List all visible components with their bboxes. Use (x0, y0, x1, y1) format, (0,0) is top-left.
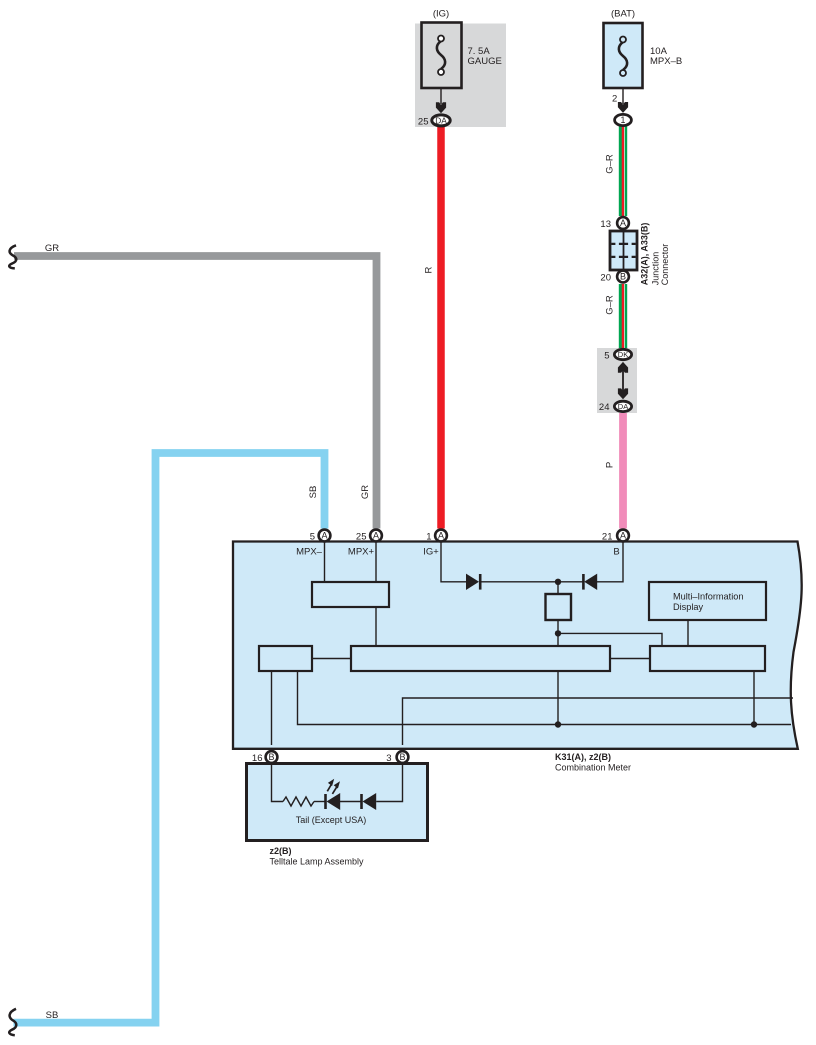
wire rectA bottom to long rect (375, 607, 377, 646)
wire pin3 up and right bus y698 (403, 698, 794, 745)
junction connector pin 13 A (600, 217, 628, 230)
label Junction Connector rotated (651, 244, 671, 286)
svg-text:B: B (613, 547, 619, 558)
svg-text:IG+: IG+ (423, 547, 439, 558)
wire left rect to bus y724 (298, 671, 792, 725)
wire diode to pin 3 (376, 764, 402, 802)
meter long rect (351, 646, 610, 671)
label SB rotated near pin 5 (308, 486, 319, 499)
oval 24 DA (599, 401, 632, 413)
junction connector pin 20 B (600, 271, 628, 284)
svg-text:5: 5 (310, 531, 315, 542)
svg-text:Display: Display (673, 602, 704, 612)
svg-text:Connector: Connector (660, 244, 670, 286)
svg-text:A: A (438, 531, 444, 541)
svg-text:GR: GR (45, 243, 59, 254)
oval 5 DK (604, 349, 631, 361)
wire from dot right to right-rect top (558, 633, 662, 646)
svg-text:(IG): (IG) (433, 9, 449, 20)
svg-text:Junction: Junction (651, 252, 661, 286)
diode D2 (B side, pointing left) (558, 574, 597, 590)
pin name MPX+ (348, 547, 375, 558)
svg-text:25: 25 (418, 117, 429, 128)
meter internal wire: pin21 B down and left to diode (597, 542, 623, 582)
svg-text:2: 2 (612, 94, 617, 105)
junction dot bus right (751, 721, 757, 727)
svg-text:B: B (620, 272, 626, 282)
svg-text:Telltale Lamp Assembly: Telltale Lamp Assembly (270, 857, 365, 867)
svg-text:A32(A), A33(B): A32(A), A33(B) (640, 223, 650, 286)
gray background block behind IG fuse (415, 24, 506, 128)
svg-text:Tail (Except USA): Tail (Except USA) (296, 815, 367, 825)
combination meter body K31(A) z2(B) (233, 542, 802, 749)
label G-R rotated upper (605, 154, 616, 174)
wire long rect to right rect (610, 658, 650, 660)
svg-text:1: 1 (426, 531, 431, 542)
svg-text:B: B (399, 752, 405, 762)
diode D1 (IG+ side, pointing right) (466, 574, 558, 590)
meter internal wire: pin1 IG+ down and right to diode (441, 542, 466, 582)
svg-text:A: A (620, 218, 626, 228)
pin name IG+ (423, 547, 439, 558)
label Tail (Except USA) (296, 815, 367, 825)
svg-text:SB: SB (46, 1010, 59, 1021)
fuse 10A MPX-B (BAT) (604, 9, 683, 113)
svg-text:A: A (373, 531, 379, 541)
junction dot below square (555, 630, 561, 636)
wire right rect bottom down (753, 671, 755, 725)
small square component (546, 582, 572, 646)
wire G-R lower: junction B to DK (619, 284, 628, 349)
svg-text:24: 24 (599, 402, 610, 413)
svg-text:MPX–B: MPX–B (650, 56, 682, 67)
svg-text:25: 25 (356, 531, 367, 542)
diode D3 in telltale (pointing left) (362, 793, 377, 810)
meter top pin 21 A (602, 530, 629, 543)
svg-text:K31(A), z2(B): K31(A), z2(B) (555, 752, 611, 762)
connector oval 1 (615, 114, 632, 125)
wire long rect bottom down (557, 671, 559, 725)
wire left rect to long rect (312, 658, 351, 660)
label P rotated (605, 462, 616, 468)
label GR left (45, 243, 59, 254)
svg-text:Combination Meter: Combination Meter (555, 763, 631, 773)
svg-text:21: 21 (602, 531, 613, 542)
wire R red: from fuse DA to pin 1 (437, 126, 445, 529)
meter bottom pin 3 B (386, 751, 408, 764)
svg-text:DK: DK (618, 350, 628, 359)
gray connector block DK/DA (597, 348, 637, 413)
svg-text:Multi–Information: Multi–Information (673, 591, 743, 601)
svg-text:1: 1 (621, 115, 626, 125)
junction connector box A32(A) A33(B) (610, 231, 637, 270)
break squiggle SB bottom left (9, 1009, 16, 1035)
svg-text:A: A (620, 531, 626, 541)
svg-text:13: 13 (600, 219, 611, 230)
wire GR gray: from left edge to pin 25 (14, 256, 377, 529)
meter top pin 5 A (310, 530, 331, 543)
meter internal wire: pin25 to rectA (375, 542, 377, 582)
meter top pin 25 A (356, 530, 382, 543)
wire SB skyblue: from left edge bottom up to pin 5 (14, 453, 325, 1023)
junction dot bus (555, 721, 561, 727)
resistor in telltale (283, 797, 314, 806)
label z2(B) Telltale Lamp Assembly (270, 846, 365, 867)
svg-text:SB: SB (308, 486, 319, 499)
label R rotated (424, 266, 435, 273)
svg-text:GR: GR (360, 485, 371, 499)
label A32(A), A33(B) rotated (640, 223, 650, 286)
meter top pin 1 A (426, 530, 447, 543)
svg-text:GAUGE: GAUGE (468, 56, 502, 67)
meter right rect (650, 646, 765, 671)
connector oval 25 DA (418, 115, 450, 128)
svg-text:B: B (268, 752, 274, 762)
LED (tail lamp) (326, 779, 341, 810)
svg-text:G–R: G–R (605, 154, 616, 174)
svg-text:G–R: G–R (605, 295, 616, 315)
meter rect A (under MPX pins) (312, 582, 389, 607)
meter bottom pin 16 B (252, 751, 277, 764)
fuse 7.5A GAUGE (IG) (422, 9, 502, 114)
svg-text:P: P (605, 462, 616, 468)
wire left rect to pin 16 (271, 671, 273, 745)
meter left small rect (259, 646, 312, 671)
svg-text:A: A (321, 531, 327, 541)
label GR rotated near pin 25 (360, 485, 371, 499)
wire LED to diode (340, 801, 361, 803)
pin name B (613, 547, 619, 558)
svg-text:5: 5 (604, 350, 609, 361)
break squiggle GR left edge (9, 245, 16, 268)
svg-text:MPX–: MPX– (296, 547, 323, 558)
meter internal wire: pin5 to rectA (324, 542, 326, 582)
label SB bottom (46, 1010, 59, 1021)
svg-text:R: R (424, 266, 435, 273)
svg-text:MPX+: MPX+ (348, 547, 375, 558)
svg-text:DA: DA (618, 402, 628, 411)
svg-text:(BAT): (BAT) (611, 9, 635, 20)
pin name MPX- (296, 547, 323, 558)
wire resistor to LED (314, 801, 325, 803)
telltale lamp assembly box (247, 764, 428, 841)
wire G-R upper: oval 1 to junction A (619, 126, 628, 216)
double arrow between DK and DA (618, 362, 628, 399)
wire P pink: from DA to pin 21 (619, 412, 627, 529)
junction dot between diodes (555, 579, 561, 585)
label K31(A), z2(B) Combination Meter (555, 752, 631, 773)
wire MID to right rect (687, 620, 689, 646)
Multi-Information Display box (649, 582, 766, 620)
label G-R rotated lower (605, 295, 616, 315)
svg-text:z2(B): z2(B) (270, 846, 292, 856)
svg-text:20: 20 (600, 272, 611, 283)
wire pin16 down into telltale (272, 764, 284, 802)
svg-text:DA: DA (435, 115, 447, 125)
